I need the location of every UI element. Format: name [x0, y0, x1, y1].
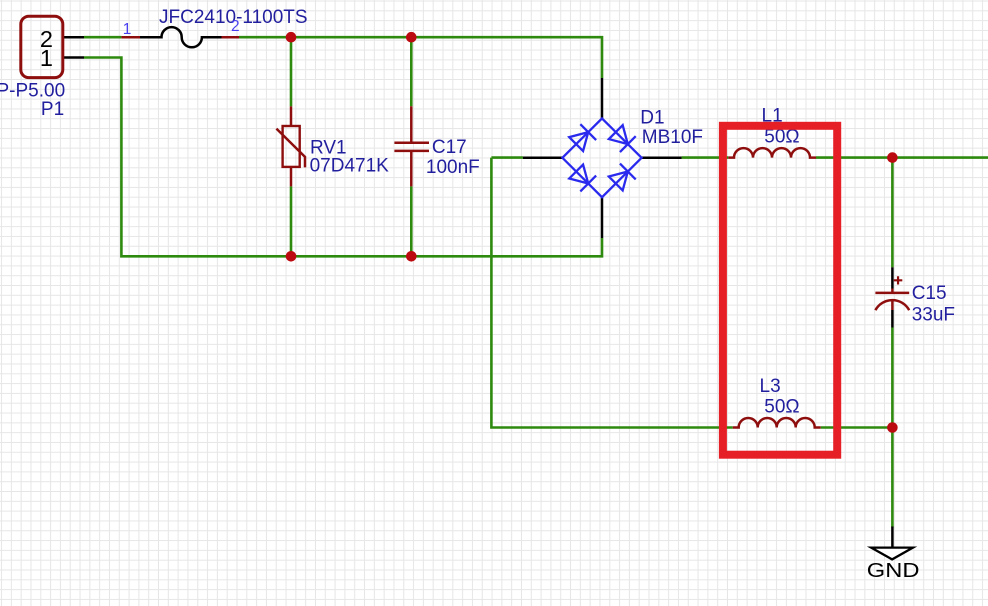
- svg-text:C15: C15: [912, 283, 947, 304]
- svg-text:33uF: 33uF: [912, 304, 955, 325]
- svg-text:L3: L3: [760, 376, 781, 397]
- svg-text:50Ω: 50Ω: [764, 397, 799, 418]
- svg-text:1: 1: [123, 21, 132, 38]
- svg-text:07D471K: 07D471K: [310, 156, 390, 177]
- svg-text:D1: D1: [640, 108, 664, 129]
- svg-text:C17: C17: [432, 137, 467, 158]
- svg-text:1: 1: [40, 45, 53, 71]
- svg-text:100nF: 100nF: [426, 157, 480, 178]
- svg-text:GND: GND: [867, 559, 920, 582]
- svg-text:2: 2: [231, 18, 240, 35]
- svg-text:MB10F: MB10F: [642, 127, 703, 148]
- svg-text:P1: P1: [41, 99, 64, 120]
